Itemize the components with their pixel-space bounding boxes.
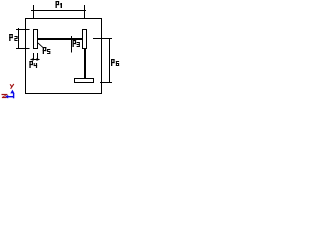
dimension P4 arrow shaft: [31, 59, 40, 60]
dimension P4 left stub: [33, 53, 34, 60]
dimension P2 bottom tick: [16, 48, 30, 49]
dimension P4 right stub: [37, 53, 38, 60]
dimension P3 extension: [71, 36, 72, 53]
y axis arrow (blue, pointing up): [10, 90, 14, 94]
dimension P1 line: [31, 10, 86, 11]
label P5: [43, 47, 51, 54]
axis icon: [2, 84, 15, 99]
bottom flange: [74, 78, 94, 79]
beam (thick horizontal): [38, 38, 82, 40]
outer box: [25, 18, 102, 19]
axis label z (red): [2, 94, 8, 98]
leader line P5: [38, 43, 43, 48]
label P4: [29, 61, 37, 68]
plate 2 (right stiffener): [82, 29, 87, 30]
label P3: [73, 40, 80, 47]
axis label y (red): [10, 84, 14, 89]
dimension P1 left extension: [33, 5, 34, 18]
dimension P6 line: [109, 38, 110, 83]
label P6: [111, 59, 119, 66]
dimension P2 top tick: [16, 29, 30, 30]
dimension P2 line: [18, 28, 19, 49]
z axis arrow (blue, pointing left): [7, 96, 13, 97]
label P2: [9, 34, 17, 41]
dimension P6 top tick: [93, 38, 112, 39]
label P1: [56, 1, 63, 8]
plate 1 (left stiffener): [33, 29, 38, 30]
dimension P4 arrowheads: [30, 58, 40, 61]
dimension P1 right extension: [84, 5, 85, 18]
dimension P6 bottom tick: [100, 82, 112, 83]
web stem: [84, 49, 86, 78]
labels (hand-drawn mini glyphs): [9, 1, 119, 68]
